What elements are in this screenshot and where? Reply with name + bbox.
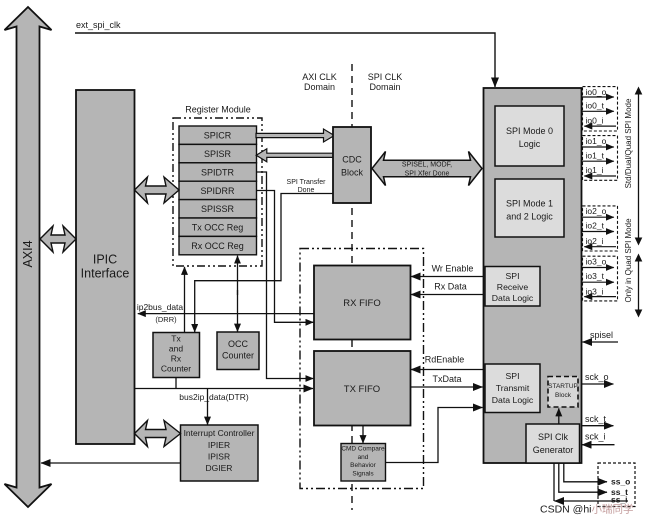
double arrow IPIC to Interrupt Controller bbox=[135, 421, 181, 447]
wire ss_i bbox=[554, 463, 628, 505]
register SPISR bbox=[179, 144, 257, 162]
wire spisel bbox=[583, 330, 619, 342]
svg-text:Only in Quad SPI Mode: Only in Quad SPI Mode bbox=[624, 218, 633, 303]
wire TxData bbox=[411, 374, 483, 387]
register Rx OCC Reg bbox=[179, 236, 257, 254]
wire SPI Transfer Done bbox=[195, 179, 333, 332]
svg-text:and: and bbox=[169, 344, 183, 354]
io2 dashed box bbox=[583, 206, 618, 251]
wire ss_o bbox=[564, 463, 631, 487]
svg-text:and: and bbox=[358, 454, 369, 461]
svg-text:SPI Transfer: SPI Transfer bbox=[287, 179, 327, 186]
vertical double arrow Std/Dual/Quad span bbox=[624, 87, 642, 246]
svg-text:SPISEL, MODF,: SPISEL, MODF, bbox=[402, 162, 452, 169]
svg-text:ss_o: ss_o bbox=[611, 477, 630, 487]
wire branch bus2ip to interrupt controller bbox=[207, 389, 209, 425]
double arrow IPIC to Register Module bbox=[135, 177, 180, 203]
AXI4 bus double arrow bbox=[5, 7, 52, 507]
wire Rx OCC Reg to OCC counter up bbox=[237, 256, 239, 295]
svg-text:io1_t: io1_t bbox=[586, 151, 605, 161]
svg-text:CSDN @hi小瑞同学: CSDN @hi小瑞同学 bbox=[540, 503, 634, 516]
svg-text:spisel: spisel bbox=[590, 330, 613, 340]
svg-text:Domain: Domain bbox=[304, 82, 335, 92]
svg-text:io0_o: io0_o bbox=[586, 87, 607, 97]
svg-text:RX FIFO: RX FIFO bbox=[343, 298, 380, 309]
svg-text:Interrupt Controller: Interrupt Controller bbox=[184, 428, 255, 438]
svg-text:io3_o: io3_o bbox=[586, 257, 607, 267]
svg-text:Counter: Counter bbox=[222, 351, 254, 361]
block Tx and Rx Counter bbox=[153, 333, 200, 378]
svg-text:(DRR): (DRR) bbox=[155, 315, 177, 324]
svg-text:Counter: Counter bbox=[161, 364, 191, 374]
svg-text:IPIER: IPIER bbox=[208, 440, 230, 450]
wire ext_spi_clk bbox=[75, 20, 495, 87]
signal io3_o bbox=[582, 257, 614, 268]
svg-text:IPIC: IPIC bbox=[93, 253, 117, 267]
io1 dashed box bbox=[583, 136, 618, 181]
block SPI Mode 0 Logic bbox=[495, 106, 564, 166]
dash-dot FIFO container bbox=[300, 249, 424, 489]
svg-text:io0_t: io0_t bbox=[586, 101, 605, 111]
svg-text:Generator: Generator bbox=[533, 445, 574, 455]
signal io2_o bbox=[582, 206, 614, 217]
wire sck_o bbox=[582, 372, 614, 384]
svg-text:io3_i: io3_i bbox=[586, 286, 604, 296]
signal io0_i bbox=[584, 115, 616, 126]
block SPI module (main) bbox=[484, 88, 582, 463]
svg-text:DGIER: DGIER bbox=[206, 463, 233, 473]
wire CMD compare to SPI module bbox=[386, 408, 483, 463]
svg-text:bus2ip_data(DTR): bus2ip_data(DTR) bbox=[179, 392, 249, 402]
svg-text:SPI Xfer Done: SPI Xfer Done bbox=[405, 171, 450, 178]
svg-text:Interface: Interface bbox=[81, 267, 130, 281]
wire bus2ip_data (DTR) bbox=[135, 389, 314, 403]
svg-text:io1_i: io1_i bbox=[586, 165, 604, 175]
svg-text:Rx OCC Reg: Rx OCC Reg bbox=[191, 241, 244, 251]
svg-text:OCC: OCC bbox=[228, 339, 249, 349]
block CMD Compare and Behavior Signals bbox=[341, 444, 386, 482]
svg-text:ip2bus_data: ip2bus_data bbox=[137, 302, 184, 312]
wire sck_i bbox=[582, 432, 615, 445]
svg-text:Done: Done bbox=[298, 187, 315, 194]
svg-text:sck_t: sck_t bbox=[585, 414, 607, 424]
signal io1_i bbox=[584, 165, 616, 176]
svg-text:Transmit: Transmit bbox=[496, 383, 530, 393]
svg-text:CDC: CDC bbox=[342, 155, 362, 165]
signal io3_i bbox=[584, 286, 616, 296]
label SPI CLK Domain bbox=[368, 72, 403, 92]
block STARTUP bbox=[548, 377, 578, 408]
svg-text:SPISR: SPISR bbox=[204, 149, 232, 159]
register SPIDTR bbox=[179, 163, 257, 181]
svg-text:Block: Block bbox=[555, 392, 572, 399]
svg-text:SPI Mode 1: SPI Mode 1 bbox=[506, 199, 553, 209]
svg-text:SPI: SPI bbox=[505, 371, 519, 381]
svg-text:sck_o: sck_o bbox=[585, 372, 609, 382]
svg-text:Receive: Receive bbox=[497, 282, 529, 292]
wire ss_t bbox=[559, 463, 628, 497]
ss dashed box bbox=[598, 463, 635, 507]
wire Rx Data bbox=[411, 282, 484, 295]
svg-text:AXI CLK: AXI CLK bbox=[302, 72, 337, 82]
svg-text:SPI: SPI bbox=[505, 271, 519, 281]
io0 dashed box bbox=[583, 87, 618, 131]
block TX FIFO bbox=[314, 351, 411, 426]
wire SPIDTR to TX FIFO bbox=[256, 172, 313, 379]
svg-text:RdEnable: RdEnable bbox=[425, 355, 465, 365]
wire TX FIFO to CMD compare bbox=[362, 426, 364, 444]
wire sck_t bbox=[582, 414, 614, 426]
block RX FIFO bbox=[314, 266, 411, 340]
svg-text:Std/Dual/Quad SPI Mode: Std/Dual/Quad SPI Mode bbox=[624, 98, 633, 188]
wire Wr Enable bbox=[411, 264, 484, 277]
svg-text:io3_t: io3_t bbox=[586, 271, 605, 281]
svg-text:Wr Enable: Wr Enable bbox=[432, 264, 474, 274]
svg-text:SPISSR: SPISSR bbox=[201, 204, 235, 214]
svg-text:io2_i: io2_i bbox=[586, 236, 604, 246]
Register Module dash-dot container bbox=[173, 105, 262, 267]
block CDC bbox=[333, 127, 371, 203]
svg-text:CMD Compare: CMD Compare bbox=[341, 446, 385, 453]
block Interrupt Controller bbox=[181, 425, 259, 481]
svg-text:io0_i: io0_i bbox=[586, 115, 604, 125]
register SPICR bbox=[179, 126, 257, 144]
wire SPIDRR to RX FIFO bbox=[256, 191, 313, 323]
svg-text:Rx: Rx bbox=[171, 354, 182, 364]
svg-text:sck_i: sck_i bbox=[585, 432, 606, 442]
block IPIC Interface bbox=[76, 90, 135, 444]
svg-text:and 2 Logic: and 2 Logic bbox=[506, 212, 553, 222]
wire Tx Rx counter to bus2ip line bbox=[175, 378, 177, 389]
svg-text:SPI CLK: SPI CLK bbox=[368, 72, 403, 82]
svg-text:SPI Clk: SPI Clk bbox=[538, 432, 569, 442]
bus arrow CDC to SPISR bbox=[256, 149, 333, 162]
svg-text:TX FIFO: TX FIFO bbox=[344, 384, 380, 395]
register SPISSR bbox=[179, 200, 257, 218]
svg-text:io1_o: io1_o bbox=[586, 136, 607, 146]
signal io1_o bbox=[582, 136, 614, 147]
svg-text:AXI4: AXI4 bbox=[21, 240, 35, 267]
svg-text:SPIDRR: SPIDRR bbox=[200, 186, 235, 196]
vertical double arrow Only in Quad span bbox=[624, 218, 642, 318]
register SPIDRR bbox=[179, 181, 257, 199]
svg-text:ext_spi_clk: ext_spi_clk bbox=[76, 20, 121, 30]
svg-text:TxData: TxData bbox=[432, 374, 461, 384]
svg-text:Behavior: Behavior bbox=[350, 462, 376, 469]
svg-text:io2_t: io2_t bbox=[586, 221, 605, 231]
block SPI Mode 1 and 2 Logic bbox=[495, 179, 564, 237]
block SPI Receive Data Logic bbox=[485, 267, 540, 307]
svg-text:Tx OCC Reg: Tx OCC Reg bbox=[192, 223, 244, 233]
label AXI CLK Domain bbox=[302, 72, 337, 92]
block OCC Counter bbox=[217, 332, 259, 370]
block SPI Transmit Data Logic bbox=[485, 364, 540, 413]
wire interrupt to AXI4 bbox=[41, 462, 181, 464]
svg-text:Logic: Logic bbox=[519, 139, 541, 149]
svg-text:Domain: Domain bbox=[369, 82, 400, 92]
svg-text:STARTUP: STARTUP bbox=[548, 383, 578, 390]
wire Rx OCC Reg to OCC counter down bbox=[237, 290, 239, 332]
register Tx OCC Reg bbox=[179, 218, 257, 236]
wire register module to Tx Rx counter bbox=[184, 267, 186, 333]
svg-text:Data Logic: Data Logic bbox=[492, 395, 534, 405]
svg-text:Register Module: Register Module bbox=[185, 105, 251, 115]
signal io1_t bbox=[582, 151, 614, 162]
signal io2_i bbox=[584, 236, 616, 247]
signal io3_t bbox=[582, 271, 614, 282]
double arrow AXI4 to IPIC bbox=[40, 226, 76, 252]
svg-text:io2_o: io2_o bbox=[586, 206, 607, 216]
bus arrow SPICR to CDC bbox=[256, 129, 334, 142]
wire RdEnable bbox=[411, 355, 484, 370]
svg-text:Rx Data: Rx Data bbox=[434, 282, 467, 292]
svg-text:SPICR: SPICR bbox=[204, 131, 232, 141]
svg-text:Signals: Signals bbox=[352, 471, 374, 478]
svg-text:Tx: Tx bbox=[171, 334, 181, 344]
dashed clock-domain boundary line bbox=[351, 64, 353, 510]
svg-text:SPI Mode 0: SPI Mode 0 bbox=[506, 126, 553, 136]
svg-text:Data Logic: Data Logic bbox=[492, 293, 534, 303]
thick arrow SPISEL MODF SPI Xfer Done bbox=[372, 152, 482, 186]
svg-text:Block: Block bbox=[341, 168, 364, 178]
wire ip2bus_data (DRR) bbox=[137, 302, 314, 324]
io3 dashed box bbox=[583, 256, 618, 301]
signal io0_t bbox=[582, 101, 614, 112]
svg-text:IPISR: IPISR bbox=[208, 452, 230, 462]
signal io2_t bbox=[582, 221, 614, 232]
signal io0_o bbox=[582, 87, 614, 97]
svg-text:SPIDTR: SPIDTR bbox=[201, 167, 235, 177]
wire SPI Clk Generator to STARTUP bbox=[558, 408, 560, 424]
block SPI Clk Generator bbox=[526, 424, 580, 463]
